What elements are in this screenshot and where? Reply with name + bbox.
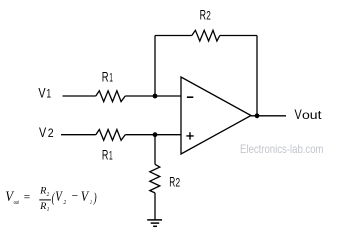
formula Vout = R2/R1 (V2 - V1): [5, 186, 97, 213]
wire R1 to inverting input: [125, 95, 181, 97]
resistor R2 (ground branch): [150, 164, 160, 193]
ground: [147, 220, 162, 226]
wire node B down to R2: [154, 135, 156, 165]
wire output to Vout: [251, 115, 286, 117]
op-amp non-inverting pin marker (+): [186, 132, 193, 139]
junction node B (non-inverting input): [153, 132, 158, 137]
svg-text:out: out: [302, 110, 322, 122]
wire V1 lead to R1: [63, 95, 96, 97]
wire R2 to ground: [154, 193, 156, 220]
op-amp inverting pin marker (-): [187, 96, 193, 98]
svg-text:−: −: [72, 188, 79, 203]
svg-text:R: R: [102, 147, 109, 163]
svg-text:out: out: [14, 199, 19, 206]
svg-text:R: R: [200, 7, 206, 23]
svg-text:R: R: [102, 68, 109, 84]
resistor R1 (inverting input branch): [96, 91, 125, 102]
wire feedback top right segment: [220, 35, 257, 37]
svg-text:1: 1: [109, 151, 113, 163]
wire feedback down to output node: [256, 36, 258, 116]
svg-text:V: V: [38, 85, 46, 101]
label R2 (ground branch): [169, 174, 180, 190]
label Vout: [295, 106, 323, 122]
wire node A up to feedback: [154, 36, 156, 97]
label R2 (feedback): [200, 7, 211, 23]
svg-text:1: 1: [90, 199, 92, 206]
wire feedback top left segment: [155, 35, 192, 37]
junction node A (inverting input): [153, 94, 158, 99]
wire V2 lead to R1: [61, 134, 96, 136]
svg-text:=: =: [24, 189, 30, 204]
svg-text:): ): [93, 190, 97, 205]
svg-text:1: 1: [109, 72, 113, 84]
svg-text:R: R: [169, 174, 175, 190]
wire R1 to non-inverting input: [125, 134, 181, 136]
resistor R1 (non-inverting input branch): [96, 130, 125, 141]
svg-text:R: R: [39, 186, 46, 196]
svg-text:2: 2: [175, 178, 180, 190]
svg-text:2: 2: [48, 128, 54, 140]
svg-text:V: V: [39, 124, 47, 140]
svg-text:1: 1: [46, 89, 51, 101]
op-amp U1: [181, 77, 251, 154]
junction output node: [255, 113, 260, 118]
label R1 (inverting branch): [102, 68, 113, 84]
resistor R2 (feedback): [192, 30, 220, 41]
svg-text:R: R: [39, 202, 46, 212]
label V1: [38, 85, 51, 101]
svg-text:Electronics-lab.com: Electronics-lab.com: [240, 142, 324, 156]
svg-text:1: 1: [47, 206, 50, 213]
svg-text:2: 2: [47, 192, 50, 198]
label R1 (non-inverting branch): [102, 147, 113, 163]
label V2: [39, 124, 54, 140]
svg-text:2: 2: [206, 11, 211, 23]
